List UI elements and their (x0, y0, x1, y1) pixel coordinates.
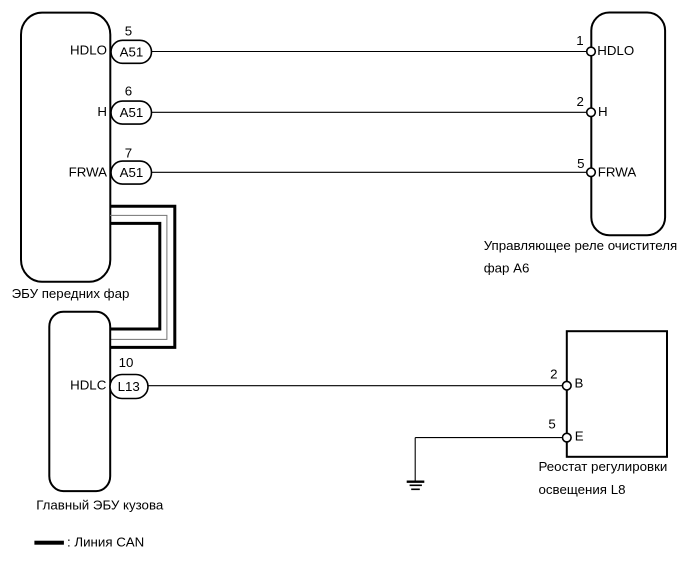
svg-text:A51: A51 (120, 44, 144, 59)
svg-text:HDLC: HDLC (70, 378, 107, 393)
svg-text:5: 5 (577, 156, 584, 171)
pin terminal circle 2 (B, rheostat L8) (550, 367, 583, 391)
svg-text:6: 6 (125, 83, 132, 98)
svg-text:7: 7 (125, 145, 132, 160)
wire H row (150, 111, 587, 113)
svg-text:Реостат регулировки: Реостат регулировки (539, 459, 668, 474)
wire FRWA row (150, 171, 587, 173)
svg-text:Управляющее реле очистителя: Управляющее реле очистителя (484, 238, 677, 253)
connector oval L13 pin 10 (110, 355, 148, 399)
ground symbol (407, 482, 425, 490)
pin terminal circle 2 (H, relay A6) (576, 94, 607, 119)
svg-text:L13: L13 (118, 379, 140, 394)
svg-text:A51: A51 (120, 165, 144, 180)
rheostat block L8: Реостат регулировки освещения (567, 331, 667, 457)
svg-text:5: 5 (548, 417, 555, 432)
pin terminal circle 5 (E, rheostat L8) (548, 417, 583, 444)
pin terminal circle 1 (HDLO, relay A6) (576, 33, 634, 58)
ECU block A51: ЭБУ передних фар (21, 13, 110, 282)
svg-text:FRWA: FRWA (69, 165, 108, 180)
svg-text:E: E (575, 428, 584, 443)
svg-text:HDLO: HDLO (597, 43, 634, 58)
svg-text:H: H (598, 104, 608, 119)
legend: CAN line sample bar (34, 541, 64, 545)
relay block A6: Управляющее реле очистителя фар (591, 13, 665, 236)
connector oval A51 pin 5 (111, 23, 152, 63)
wire ground drop (414, 438, 416, 481)
svg-text:10: 10 (119, 355, 134, 370)
wire HDLC/B row (146, 385, 563, 387)
CAN bus middle thin line (110, 215, 167, 339)
svg-text:A51: A51 (120, 105, 144, 120)
svg-text:1: 1 (576, 33, 583, 48)
ECU block L13: Главный ЭБУ кузова (49, 312, 110, 491)
svg-text:: Линия CAN: : Линия CAN (67, 535, 144, 550)
svg-text:освещения L8: освещения L8 (539, 482, 626, 497)
svg-text:5: 5 (125, 23, 132, 38)
CAN bus inner thick line (110, 223, 160, 329)
svg-text:ЭБУ передних фар: ЭБУ передних фар (12, 286, 130, 301)
connector oval A51 pin 7 (111, 145, 152, 184)
connector oval A51 pin 6 (111, 83, 152, 124)
svg-text:фар A6: фар A6 (484, 261, 530, 276)
svg-text:B: B (575, 376, 584, 391)
svg-text:2: 2 (550, 367, 557, 382)
svg-text:H: H (97, 104, 107, 119)
svg-text:FRWA: FRWA (598, 165, 637, 180)
pin terminal circle 5 (FRWA, relay A6) (577, 156, 636, 180)
svg-text:Главный ЭБУ кузова: Главный ЭБУ кузова (36, 498, 164, 513)
svg-text:2: 2 (576, 94, 583, 109)
svg-text:HDLO: HDLO (70, 43, 107, 58)
CAN bus outer thick line (110, 206, 175, 347)
wire E row (415, 437, 562, 439)
wire HDLO row (150, 51, 587, 53)
